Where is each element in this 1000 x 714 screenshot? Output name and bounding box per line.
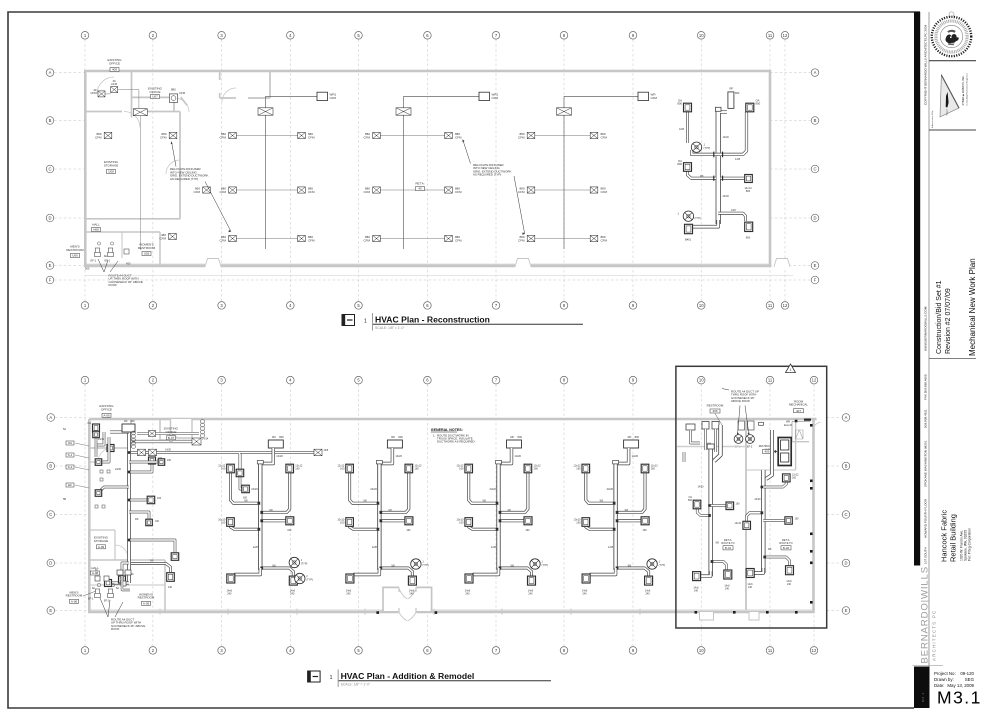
- svg-text:(TYP): (TYP): [301, 563, 308, 566]
- branch mid-left: [231, 526, 261, 529]
- leader: route duct (in box): [722, 389, 759, 436]
- label existing office (above building): [107, 58, 122, 72]
- website text: [924, 306, 928, 351]
- bottom vestibule (double door): [376, 587, 437, 620]
- svg-text:240: 240: [227, 593, 232, 596]
- svg-text:DUCTWORK AS REQUIRED.: DUCTWORK AS REQUIRED.: [437, 440, 476, 444]
- svg-text:A-05: A-05: [143, 601, 150, 605]
- restroom fixtures (bottom plan): [88, 570, 134, 603]
- svg-text:M 3 . 1: M 3 . 1: [921, 692, 925, 702]
- svg-text:U08: U08: [108, 170, 114, 174]
- branch upper-right: [616, 473, 645, 512]
- svg-text:CFM: CFM: [364, 135, 371, 139]
- bottom-right black block: [914, 667, 930, 709]
- svg-text:OFFICE: OFFICE: [150, 90, 161, 94]
- mech room (interior, below wall): [792, 419, 821, 442]
- svg-text:U05: U05: [144, 252, 150, 256]
- grid bubble 5: [355, 302, 363, 310]
- svg-text:(TYP): (TYP): [704, 146, 711, 150]
- restroom cluster (in box): [686, 421, 754, 430]
- svg-text:D: D: [49, 561, 52, 566]
- svg-text:Drawn by:: Drawn by:: [934, 677, 954, 682]
- RTU unit RT1 at x=260.3: [268, 435, 284, 448]
- svg-text:160: 160: [651, 467, 656, 471]
- svg-text:800: 800: [398, 435, 403, 439]
- svg-text:CFM: CFM: [220, 135, 227, 139]
- svg-text:406: 406: [712, 409, 717, 413]
- restroom south wall: [677, 446, 746, 448]
- svg-text:A: A: [845, 415, 848, 420]
- svg-text:A: A: [814, 70, 817, 75]
- svg-text:CFM: CFM: [308, 135, 315, 139]
- bottom plan row grid: [55, 418, 842, 611]
- svg-text:9/8: 9/8: [135, 518, 139, 521]
- restroom fans: [734, 435, 743, 444]
- svg-text:160: 160: [221, 467, 226, 471]
- svg-text:12: 12: [783, 33, 788, 38]
- grid bubble 7: [492, 32, 500, 40]
- grid bubble 7: [492, 647, 500, 655]
- svg-text:CFM: CFM: [455, 238, 462, 242]
- branch upper-left: [469, 473, 499, 503]
- svg-text:(TYP): (TYP): [306, 579, 313, 582]
- svg-text:D: D: [813, 216, 816, 221]
- branch mid-left: [350, 526, 380, 529]
- exhaust fan: [647, 559, 657, 569]
- svg-text:A-06: A-06: [71, 599, 78, 603]
- svg-text:407: 407: [796, 409, 801, 413]
- svg-text:D: D: [844, 561, 847, 566]
- grid bubble 4: [287, 302, 295, 310]
- svg-text:HALL: HALL: [91, 566, 99, 570]
- svg-text:CFM: CFM: [308, 238, 315, 242]
- supply diffuser left: [229, 132, 237, 138]
- grid bubble 10: [697, 647, 705, 655]
- svg-text:160: 160: [340, 467, 345, 471]
- svg-text:B-01: B-01: [725, 546, 732, 550]
- svg-text:160: 160: [340, 521, 345, 525]
- sheet title: Mechanical New Work Plan: [968, 258, 977, 356]
- svg-text:ROUTE TO: ROUTE TO: [779, 541, 792, 545]
- bottom plan column grid: [85, 385, 814, 647]
- grid bubble B: [47, 462, 55, 470]
- main bottom elbow & grille: [353, 568, 379, 575]
- svg-text:1: 1: [330, 675, 333, 681]
- svg-text:1: 1: [301, 559, 303, 562]
- svg-text:10x16: 10x16: [734, 522, 741, 525]
- svg-text:24/20: 24/20: [115, 468, 122, 471]
- svg-text:CFM: CFM: [518, 190, 525, 194]
- door recess 1: [700, 612, 714, 620]
- grid bubble 2: [149, 302, 157, 310]
- grid bubble F: [811, 276, 819, 284]
- branch upper-left: [586, 473, 616, 503]
- grid bubble B: [842, 462, 850, 470]
- grid bubble C: [811, 165, 819, 173]
- supply diffuser right: [590, 187, 598, 193]
- supply diffuser right: [298, 187, 306, 193]
- svg-text:RF: RF: [628, 435, 632, 439]
- left office ductwork: [96, 432, 245, 583]
- engineer triangle stamp: [931, 72, 969, 128]
- svg-text:F: F: [49, 278, 52, 283]
- label womens restroom (bottom): [138, 593, 155, 606]
- svg-text:10: 10: [699, 33, 704, 38]
- office2 diagonal wall: [181, 97, 187, 105]
- label existing storage: [104, 160, 119, 174]
- grid bubble A: [811, 69, 819, 77]
- svg-text:11: 11: [768, 303, 773, 308]
- svg-text:240: 240: [583, 593, 588, 596]
- grid bubble 2: [149, 32, 157, 40]
- svg-text:RESTROOM: RESTROOM: [138, 596, 155, 600]
- svg-text:24/20: 24/20: [251, 487, 258, 491]
- supply diffuser left: [373, 187, 381, 193]
- svg-text:408: 408: [112, 68, 117, 72]
- diffuser run row y=135.5 bay x=564: [531, 135, 594, 137]
- svg-text:E: E: [49, 608, 52, 613]
- svg-text:CFM: CFM: [90, 91, 97, 95]
- svg-text:800: 800: [677, 102, 682, 106]
- grid bubble 4: [287, 376, 295, 384]
- svg-text:EF-1: EF-1: [91, 259, 97, 263]
- svg-text:EF-2: EF-2: [747, 446, 753, 449]
- label room mechanical 407: [789, 400, 808, 413]
- fitting boxes office: [133, 109, 147, 116]
- label WH: [784, 421, 810, 427]
- svg-text:8ø: 8ø: [92, 587, 95, 590]
- branch upper-left: [231, 473, 261, 503]
- RET label right tree: [779, 538, 792, 550]
- svg-text:HALL: HALL: [92, 223, 100, 227]
- grid bubble 9: [629, 302, 637, 310]
- grid bubble 11: [766, 32, 774, 40]
- svg-text:12: 12: [812, 378, 817, 383]
- BERNARDO WILLS logo: [913, 566, 944, 666]
- svg-text:EF-1: EF-1: [88, 598, 94, 601]
- mech duct tree (top plan right): [688, 92, 747, 227]
- office2 diffuser: [169, 94, 177, 102]
- svg-text:GENERAL NOTES:: GENERAL NOTES:: [431, 428, 463, 432]
- svg-text:B-07: B-07: [168, 436, 175, 440]
- leader: relocate diffuser note (left): [170, 142, 231, 233]
- grid bubble 1: [81, 376, 89, 384]
- supply diffuser left: [527, 187, 535, 193]
- left margin tags (bottom plan): [63, 428, 89, 501]
- bottom plan building outline: [89, 419, 816, 612]
- svg-text:240: 240: [725, 588, 730, 591]
- svg-text:Project No:: Project No:: [934, 671, 956, 676]
- grid bubble A: [46, 69, 54, 77]
- svg-text:(TYP): (TYP): [659, 564, 666, 567]
- svg-text:16/8: 16/8: [679, 128, 684, 131]
- svg-text:240: 240: [787, 583, 792, 586]
- extra office diffusers: [104, 132, 112, 138]
- diffuser run row y=238.5 bay x=265.5: [233, 238, 302, 240]
- svg-text:14/20: 14/20: [632, 454, 639, 458]
- svg-text:160: 160: [534, 467, 539, 471]
- supply diffuser left: [229, 235, 237, 241]
- svg-text:B: B: [49, 464, 52, 469]
- grid bubble B: [46, 117, 54, 125]
- svg-text:A-06: A-06: [103, 413, 110, 417]
- grid bubble 6: [424, 302, 432, 310]
- svg-text:12: 12: [812, 648, 817, 653]
- address/phone text: [924, 374, 928, 564]
- duct fitting at bay top x=564: [557, 108, 572, 115]
- copyright text: [924, 24, 928, 105]
- plan title: HVAC Plan - Reconstruction: [342, 313, 583, 331]
- label restroom 406: [707, 404, 724, 426]
- office partition walls: [85, 71, 270, 219]
- extra office ducts: [100, 437, 318, 519]
- supply diffuser left: [527, 235, 535, 241]
- plan title: HVAC Plan - Addition &amp; Remodel: [308, 670, 551, 688]
- svg-text:CFM: CFM: [95, 135, 102, 139]
- grid bubble 6: [424, 647, 432, 655]
- svg-text:C: C: [48, 167, 51, 172]
- diffuser run row y=135.5 bay x=403.5: [377, 135, 449, 137]
- svg-text:14/20: 14/20: [723, 136, 730, 139]
- duct drop from RT2: [381, 448, 392, 464]
- label hall: [92, 223, 101, 232]
- svg-text:240: 240: [290, 593, 295, 596]
- diffuser run row y=190 bay x=403.5: [377, 189, 449, 191]
- svg-text:C: C: [813, 167, 816, 172]
- svg-text:SCALE: 1/8" = 1'-0": SCALE: 1/8" = 1'-0": [341, 683, 371, 687]
- leader: relocate diffuser note (mid): [463, 140, 525, 235]
- left office partitions (bottom plan): [89, 419, 170, 612]
- extra diffuser storage area: [169, 132, 177, 138]
- svg-text:14/20: 14/20: [165, 449, 172, 452]
- svg-text:SCALE: 1/8" = 1'-0": SCALE: 1/8" = 1'-0": [375, 326, 405, 330]
- branch mid-left: [469, 526, 499, 529]
- branch lower-right: [260, 568, 293, 576]
- grid bubble 4: [287, 32, 295, 40]
- svg-text:WWW.BERNARDOWILLS.COM: WWW.BERNARDOWILLS.COM: [924, 306, 928, 351]
- office fitting boxes: [192, 438, 201, 445]
- grid bubble 5: [355, 32, 363, 40]
- svg-text:11: 11: [768, 648, 773, 653]
- door swing arcs: [97, 77, 236, 174]
- svg-text:Consulting Mechanical Engineer: Consulting Mechanical Engineers: [966, 72, 969, 105]
- svg-text:WH: WH: [786, 421, 790, 424]
- svg-text:14/20: 14/20: [698, 486, 705, 489]
- svg-text:160: 160: [459, 467, 464, 471]
- svg-text:RESTROOM: RESTROOM: [138, 246, 156, 250]
- svg-text:800: 800: [756, 102, 761, 106]
- vestibule notch at x=213: [205, 259, 221, 268]
- grid bubble 9: [629, 32, 637, 40]
- svg-text:SEG: SEG: [965, 677, 975, 682]
- grid bubble D: [47, 559, 55, 567]
- svg-text:U07: U07: [152, 95, 158, 99]
- grid bubble A: [47, 414, 55, 422]
- duct fitting at bay top x=403.5: [396, 108, 411, 115]
- grid bubble 8: [560, 302, 568, 310]
- wall register WR1: [317, 92, 336, 100]
- svg-text:CFM: CFM: [160, 236, 167, 240]
- diffuser run row y=238.5 bay x=403.5: [377, 238, 449, 240]
- branch mid-right grille: [499, 519, 525, 522]
- svg-text:160: 160: [736, 503, 741, 506]
- grid bubble 12: [781, 32, 789, 40]
- svg-text:24/20: 24/20: [723, 195, 730, 198]
- label womens restroom: [138, 243, 156, 256]
- grid bubble 10: [697, 302, 705, 310]
- svg-text:240: 240: [465, 593, 470, 596]
- svg-text:RF: RF: [391, 435, 395, 439]
- grid bubble 1: [81, 32, 89, 40]
- svg-text:HVAC Plan - Addition & Remodel: HVAC Plan - Addition & Remodel: [341, 671, 475, 681]
- svg-text:Construction/Bid Set #1: Construction/Bid Set #1: [936, 280, 943, 354]
- flex coil: [132, 420, 205, 449]
- svg-text:160: 160: [576, 467, 581, 471]
- svg-text:A Associates Why: A Associates Why: [931, 110, 934, 128]
- storefront mullion ticks: [160, 609, 640, 616]
- branch upper-left: [350, 473, 380, 503]
- svg-text:RESTROOM: RESTROOM: [66, 248, 84, 252]
- restroom ducts (in box): [684, 429, 716, 462]
- svg-text:1: 1: [678, 212, 680, 216]
- svg-text:160: 160: [643, 529, 648, 532]
- revision text block: [936, 280, 952, 354]
- grid bubble 11: [766, 302, 774, 310]
- supply diffuser right: [298, 132, 306, 138]
- supply diffuser right: [445, 235, 453, 241]
- svg-text:CFM: CFM: [601, 190, 608, 194]
- room labels left (bottom plan): [99, 404, 114, 417]
- svg-text:800: 800: [279, 435, 284, 439]
- diffuser run row y=238.5 bay x=564: [531, 238, 594, 240]
- svg-text:Mechanical New Work Plan: Mechanical New Work Plan: [968, 258, 977, 356]
- architect seal (circular stamp): [932, 12, 971, 56]
- svg-text:EF: EF: [68, 483, 72, 487]
- supply diffuser left: [373, 235, 381, 241]
- office duct line: [105, 90, 139, 108]
- svg-text:(TYP): (TYP): [422, 564, 429, 567]
- svg-text:450: 450: [126, 262, 131, 266]
- grid bubble 11: [766, 376, 774, 384]
- svg-text:9/8: 9/8: [716, 542, 720, 545]
- diffuser run row y=190 bay x=265.5: [233, 189, 302, 191]
- svg-text:RESTROOM: RESTROOM: [707, 404, 724, 408]
- branch upper-right: [379, 473, 408, 512]
- svg-text:800: 800: [746, 189, 751, 193]
- svg-text:OFFICE: OFFICE: [109, 61, 120, 65]
- grid bubble 3: [218, 32, 226, 40]
- grid bubble C: [47, 511, 55, 519]
- svg-text:Hancock Fabric: Hancock Fabric: [940, 510, 949, 562]
- grid bubble 10: [697, 32, 705, 40]
- svg-text:24/20: 24/20: [370, 487, 377, 491]
- svg-text:E: E: [49, 263, 52, 268]
- svg-text:Signed: Signed: [947, 109, 949, 115]
- supply diffuser right: [590, 235, 598, 241]
- general notes: [431, 428, 476, 444]
- branch lower-right: [379, 568, 412, 576]
- svg-text:CFM: CFM: [194, 190, 201, 194]
- svg-text:ARCHITECTS PC: ARCHITECTS PC: [932, 610, 937, 661]
- svg-text:M3.1: M3.1: [937, 688, 982, 708]
- svg-text:CFM: CFM: [455, 190, 462, 194]
- svg-text:RET'A:: RET'A:: [415, 182, 424, 186]
- svg-text:12/8: 12/8: [372, 545, 378, 549]
- branch lower-right: [499, 568, 532, 576]
- svg-text:ROOF: ROOF: [109, 283, 118, 287]
- svg-text:H08: H08: [93, 228, 99, 232]
- supply diffuser right: [445, 187, 453, 193]
- grid bubble A: [842, 414, 850, 422]
- svg-text:14/14: 14/14: [202, 438, 209, 441]
- svg-text:509.838.4511: 509.838.4511: [924, 409, 928, 428]
- svg-text:CFM: CFM: [308, 190, 315, 194]
- extra damper: [138, 449, 146, 456]
- in-box duct tree left: [697, 425, 726, 576]
- svg-text:(TYP): (TYP): [695, 217, 701, 220]
- svg-text:CFM: CFM: [601, 135, 608, 139]
- svg-text:240: 240: [409, 593, 414, 596]
- main supply duct x=615.6: [607, 461, 619, 571]
- svg-text:CFM: CFM: [518, 238, 525, 242]
- RTU unit RT4 at x=615.6: [624, 435, 640, 448]
- furnace unit right: [765, 438, 792, 466]
- right edge black bar: [914, 12, 920, 566]
- svg-text:B#01: B#01: [685, 238, 692, 242]
- svg-text:1: 1: [790, 368, 792, 372]
- svg-text:E: E: [845, 608, 848, 613]
- svg-text:2: 2: [306, 575, 308, 578]
- svg-text:10: 10: [699, 648, 704, 653]
- svg-text:5A: 5A: [63, 428, 66, 431]
- svg-text:240: 240: [168, 586, 173, 589]
- supply riser bay at x=265.5: [266, 96, 318, 249]
- svg-text:12/8: 12/8: [735, 157, 741, 161]
- svg-text:RF: RF: [730, 87, 734, 91]
- grid bubble 5: [355, 376, 363, 384]
- svg-text:11: 11: [768, 378, 773, 383]
- svg-text:B-02: B-02: [783, 546, 790, 550]
- svg-text:CFM: CFM: [220, 238, 227, 242]
- title block left border line: [928, 12, 930, 708]
- svg-text:B: B: [814, 118, 817, 123]
- svg-text:160: 160: [792, 477, 797, 480]
- exhaust fan: [530, 559, 540, 569]
- grid bubble 4: [287, 647, 295, 655]
- wall register WR1: [479, 92, 498, 100]
- RET tag: [415, 182, 424, 191]
- leader: route duct note (bottom plan): [100, 598, 145, 631]
- svg-text:240: 240: [748, 586, 753, 589]
- svg-text:10/8: 10/8: [731, 209, 736, 212]
- branch mid-right grille: [260, 519, 286, 522]
- svg-text:STORAGE: STORAGE: [94, 539, 109, 543]
- main supply duct x=260.3: [251, 461, 263, 571]
- grid bubble 6: [424, 376, 432, 384]
- svg-text:9/8: 9/8: [768, 548, 772, 551]
- svg-text:STORAGE: STORAGE: [104, 163, 119, 167]
- duct fitting at bay top x=265.5: [258, 108, 273, 115]
- svg-text:12/8: 12/8: [253, 545, 259, 549]
- svg-text:1: 1: [422, 561, 424, 564]
- svg-text:1: 1: [704, 143, 706, 147]
- branch mid-right grille: [379, 519, 405, 522]
- svg-text:12/8: 12/8: [491, 545, 497, 549]
- project name block: [940, 510, 972, 562]
- svg-text:A-09: A-09: [98, 545, 105, 549]
- svg-text:160: 160: [414, 467, 419, 471]
- svg-text:For: Prteg Corporation: For: Prteg Corporation: [968, 528, 972, 561]
